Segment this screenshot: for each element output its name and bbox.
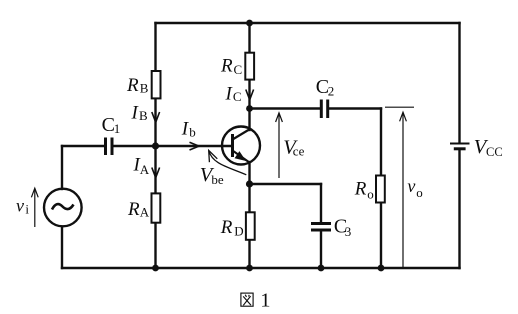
wire: source vi bottom lead bbox=[61, 227, 63, 268]
junction: emitter node bbox=[246, 180, 253, 187]
capacitor C3 bbox=[311, 224, 331, 231]
vo reference bar bbox=[385, 106, 414, 108]
wire: RC to collector node bbox=[248, 81, 250, 109]
wire: source vi top lead bbox=[61, 146, 63, 189]
transistor Q1 bbox=[222, 127, 260, 165]
label RD bbox=[220, 217, 244, 238]
source vi circle bbox=[44, 189, 82, 227]
resistor RB bbox=[152, 71, 161, 98]
wire: output corner down to Ro bbox=[380, 109, 382, 175]
svg-text:be: be bbox=[211, 172, 224, 187]
battery VCC bbox=[450, 144, 470, 149]
junction: collector node bbox=[246, 105, 253, 112]
wire: emitter node to C3 branch bbox=[250, 183, 322, 185]
wire: C3 upper lead bbox=[320, 184, 322, 222]
label IB bbox=[131, 102, 149, 123]
svg-text:o: o bbox=[416, 185, 423, 200]
svg-text:CC: CC bbox=[486, 145, 503, 159]
svg-text:o: o bbox=[367, 186, 374, 201]
label Ib bbox=[181, 119, 196, 140]
svg-text:B: B bbox=[140, 81, 149, 96]
label vo bbox=[407, 176, 422, 200]
wire: base node to RA bbox=[154, 146, 156, 192]
arrow Vbe (curved) bbox=[209, 150, 247, 174]
wire: top rail bbox=[156, 22, 460, 24]
svg-text:R: R bbox=[127, 199, 140, 220]
svg-text:2: 2 bbox=[328, 83, 335, 98]
junction: base node bbox=[152, 142, 159, 149]
resistor Ro bbox=[376, 176, 385, 203]
caption: 図 1 bbox=[241, 290, 271, 312]
arrow Vce (up) bbox=[276, 113, 283, 178]
wire: Ro to bottom rail bbox=[380, 204, 382, 268]
label RB bbox=[126, 75, 149, 96]
wire: right rail upper (to VCC battery) bbox=[458, 23, 460, 142]
resistor RD bbox=[246, 212, 255, 240]
arrow vi (up) bbox=[31, 188, 38, 227]
svg-text:i: i bbox=[25, 202, 29, 217]
svg-text:3: 3 bbox=[345, 224, 352, 239]
svg-text:C: C bbox=[233, 89, 242, 104]
svg-text:D: D bbox=[234, 224, 243, 239]
label C1 bbox=[102, 114, 121, 136]
wire: RB branch from top rail bbox=[154, 23, 156, 70]
svg-text:A: A bbox=[140, 162, 150, 177]
label vi bbox=[16, 195, 29, 216]
label C2 bbox=[316, 76, 335, 98]
wire: input node to C1 bbox=[62, 145, 103, 147]
capacitor C1 bbox=[106, 138, 113, 156]
wire: C2 to output corner bbox=[329, 107, 382, 109]
svg-text:ce: ce bbox=[293, 143, 305, 158]
junction: top rail RC tap bbox=[246, 20, 253, 27]
resistor RC bbox=[245, 53, 254, 80]
junction: C3 bottom bbox=[318, 265, 325, 272]
wire: collector node to C2 bbox=[250, 107, 320, 109]
wire: RD lower lead bbox=[248, 241, 250, 268]
arrow Ib (right, on base wire) bbox=[190, 142, 200, 150]
wire: right rail lower (from VCC battery) bbox=[458, 151, 460, 269]
junction: Ro bottom bbox=[378, 265, 385, 272]
svg-text:R: R bbox=[220, 217, 233, 238]
junction: RA bottom bbox=[152, 265, 159, 272]
label IA bbox=[133, 154, 150, 177]
svg-text:R: R bbox=[220, 56, 233, 77]
label RA bbox=[127, 199, 150, 220]
svg-text:A: A bbox=[140, 204, 150, 219]
label RC bbox=[220, 56, 242, 77]
capacitor C2 bbox=[321, 100, 327, 119]
arrow vo (up) bbox=[400, 112, 407, 268]
wire: RC branch from top rail bbox=[248, 23, 250, 53]
label VCC bbox=[474, 136, 503, 159]
svg-text:v: v bbox=[407, 176, 415, 196]
wire: emitter lead down bbox=[248, 162, 250, 184]
wire: RB to base node bbox=[154, 100, 156, 147]
svg-text:1: 1 bbox=[260, 290, 270, 312]
wire: C3 lower lead bbox=[320, 231, 322, 268]
wire: collector node to transistor bbox=[248, 109, 250, 131]
label IC bbox=[225, 84, 242, 105]
arrow IC (down) bbox=[246, 90, 254, 100]
svg-text:R: R bbox=[126, 75, 139, 96]
svg-text:C: C bbox=[234, 62, 243, 77]
svg-text:1: 1 bbox=[114, 121, 121, 136]
wire: bottom rail bbox=[62, 267, 460, 269]
svg-text:b: b bbox=[189, 125, 196, 140]
wire: RD upper lead bbox=[248, 184, 250, 211]
label Ro bbox=[354, 179, 374, 202]
arrow IA (down) bbox=[152, 168, 160, 178]
label C3 bbox=[334, 216, 351, 240]
junction: RD bottom bbox=[246, 265, 253, 272]
wire: C1 to transistor base bbox=[115, 145, 232, 147]
svg-text:B: B bbox=[139, 108, 148, 123]
wire: RA to bottom rail bbox=[154, 224, 156, 268]
arrow IB (down, on RB-base wire) bbox=[152, 112, 160, 122]
label Vce bbox=[283, 137, 304, 159]
resistor RA bbox=[152, 193, 161, 222]
svg-text:v: v bbox=[16, 195, 24, 215]
label Vbe bbox=[200, 164, 224, 187]
svg-text:R: R bbox=[354, 179, 367, 200]
